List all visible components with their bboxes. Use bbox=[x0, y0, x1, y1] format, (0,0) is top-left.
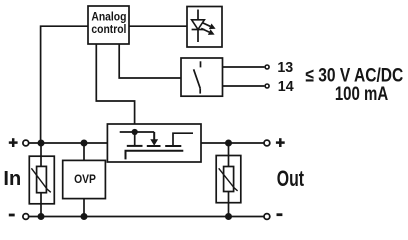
wire: varistor RV2 bottom lead bbox=[228, 203, 230, 217]
wire: bottom rail bbox=[29, 216, 263, 218]
junction node (RV2 top) bbox=[225, 140, 232, 147]
svg-text:control: control bbox=[91, 24, 126, 37]
wire: Analog control bottom-right to switch box bbox=[119, 44, 181, 78]
wire: input + to MOSFET box bbox=[29, 142, 107, 144]
relay contact box bbox=[181, 58, 223, 96]
wire: Analog control bottom-left to MOSFET gate box top bbox=[96, 44, 134, 124]
output - terminal circle bbox=[264, 214, 270, 220]
terminal 14 circle bbox=[265, 84, 269, 88]
output + terminal circle bbox=[264, 140, 270, 146]
wire: contact to terminal 14 bbox=[223, 85, 265, 87]
input - terminal circle bbox=[23, 214, 29, 220]
wire: Analog control right to LED box bbox=[129, 25, 187, 27]
svg-text:OVP: OVP bbox=[74, 174, 96, 187]
LED D1 symbol bbox=[192, 10, 216, 43]
varistor RV2 (output) bbox=[216, 156, 241, 203]
wire: varistor RV1 top lead bbox=[40, 143, 42, 156]
junction node (RV1 bottom) bbox=[38, 213, 45, 220]
svg-text:Out: Out bbox=[277, 168, 305, 192]
input + terminal circle bbox=[23, 140, 29, 146]
terminal 13 circle bbox=[265, 65, 269, 69]
label + (input) bbox=[9, 138, 18, 147]
label + (output) bbox=[276, 138, 285, 147]
wire: MOSFET box to output + bbox=[201, 142, 264, 144]
MOSFET pair symbol bbox=[120, 129, 193, 160]
switch S1 symbol bbox=[194, 61, 201, 93]
svg-text:13: 13 bbox=[277, 60, 293, 76]
varistor RV1 (input) bbox=[29, 156, 54, 204]
wire: contact to terminal 13 bbox=[223, 66, 265, 68]
LED indicator box bbox=[187, 7, 222, 48]
label - (input) bbox=[9, 214, 15, 217]
wire: Analog control left to vertical drop bbox=[41, 26, 88, 143]
junction node (RV2 bottom) bbox=[225, 213, 232, 220]
junction node (OVP top) bbox=[81, 140, 88, 147]
svg-text:Analog: Analog bbox=[91, 11, 126, 24]
wire: varistor RV1 bottom lead bbox=[40, 204, 42, 217]
wire: OVP top lead bbox=[83, 143, 85, 160]
svg-text:14: 14 bbox=[278, 79, 295, 95]
wire: varistor RV2 top lead bbox=[228, 143, 230, 156]
junction node (RV1 top) bbox=[38, 140, 45, 147]
MOSFET switch box U2 bbox=[107, 124, 201, 162]
junction node (OVP bottom) bbox=[81, 213, 88, 220]
control unit U1 "Analog control" bbox=[88, 6, 129, 44]
svg-text:100 mA: 100 mA bbox=[335, 84, 388, 105]
OVP box bbox=[63, 160, 106, 198]
label - (output) bbox=[277, 213, 283, 216]
wire: OVP bottom lead bbox=[83, 199, 85, 217]
svg-text:In: In bbox=[3, 168, 21, 190]
